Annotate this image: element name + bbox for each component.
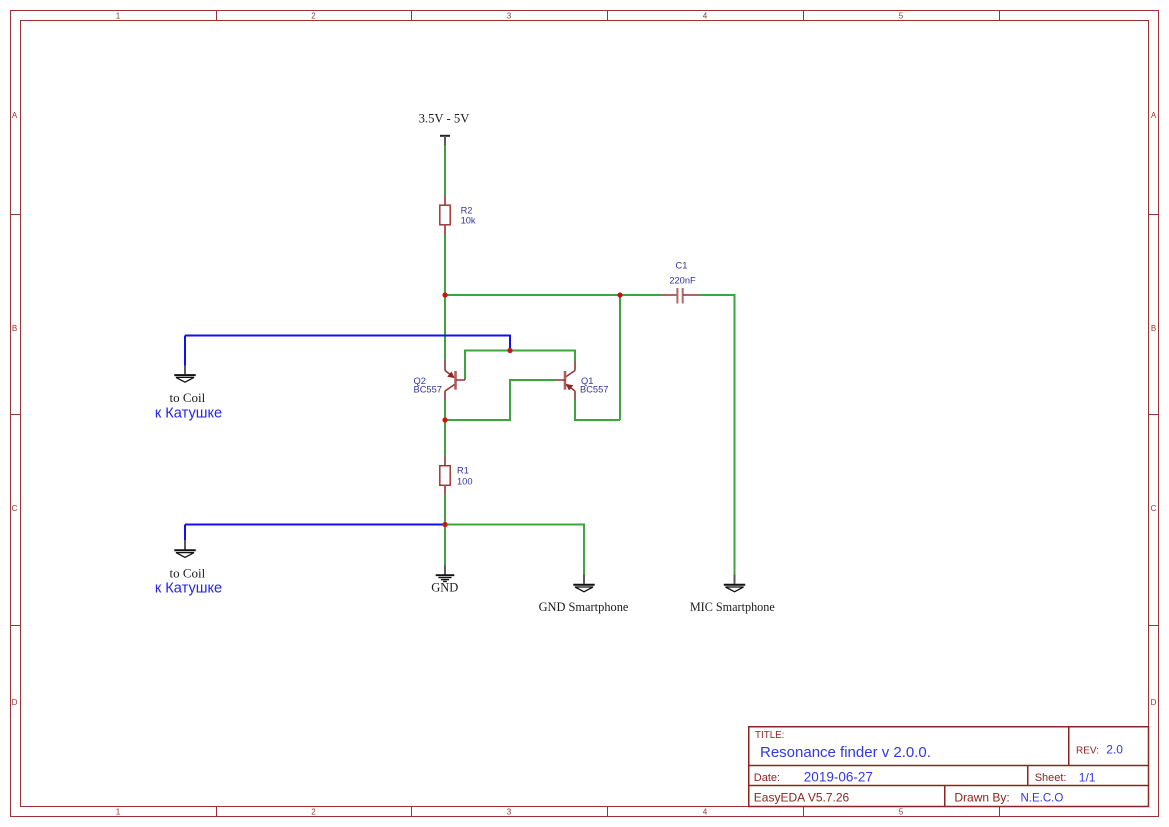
svg-text:TITLE:: TITLE:: [755, 730, 784, 741]
net port arrow to Coil lower: [174, 540, 195, 557]
net port arrow to Coil upper: [174, 366, 195, 383]
wire node x620 down: [619, 295, 621, 420]
svg-text:Sheet:: Sheet:: [1035, 772, 1067, 784]
wire C1 to MIC drop: [700, 295, 735, 575]
Q2 base bar: [454, 371, 457, 390]
wire base rail Q2base-Q1collector: [465, 351, 575, 381]
power symbol bar: [440, 135, 450, 137]
svg-text:EasyEDA V5.7.26: EasyEDA V5.7.26: [754, 790, 850, 804]
frame column numbers top: [116, 12, 904, 21]
power symbol stub: [444, 136, 446, 146]
Q1 emitter diagonal with arrow: [566, 385, 575, 392]
svg-text:100: 100: [457, 476, 473, 486]
wire power to R2: [444, 146, 446, 196]
svg-text:1: 1: [116, 12, 121, 21]
transistor Q1 (BC557): [556, 361, 608, 400]
Q1 collector pin: [574, 361, 576, 371]
svg-text:220nF: 220nF: [669, 276, 696, 286]
svg-text:2: 2: [311, 12, 316, 21]
wire R2 to node B1: [444, 235, 446, 296]
svg-text:2019-06-27: 2019-06-27: [804, 769, 873, 784]
svg-text:R1: R1: [457, 466, 469, 476]
svg-text:D: D: [1151, 698, 1157, 707]
wire ground node to GND symbol: [444, 525, 446, 566]
junction at base rail: [507, 348, 512, 353]
svg-text:Date:: Date:: [754, 772, 780, 784]
resistor R2 pin 2: [444, 225, 446, 235]
Q1 base bar: [564, 371, 567, 390]
svg-text:GND: GND: [431, 580, 458, 594]
svg-text:4: 4: [703, 808, 708, 817]
Q1 base pin: [556, 379, 565, 381]
blue stub lower coil: [184, 525, 186, 541]
svg-text:3: 3: [507, 12, 512, 21]
svg-text:B: B: [1151, 324, 1156, 333]
blue net wire to Coil lower: [185, 524, 445, 526]
resistor R2 pin 1: [444, 196, 446, 206]
svg-text:10k: 10k: [461, 216, 476, 226]
svg-text:MIC Smartphone: MIC Smartphone: [690, 600, 775, 614]
net port arrow GND Smartphone: [573, 575, 594, 592]
wire Q1 base to lower node: [445, 380, 556, 420]
svg-text:к Катушке: к Катушке: [155, 406, 222, 422]
svg-text:5: 5: [899, 12, 904, 21]
svg-text:2: 2: [311, 808, 316, 817]
svg-text:к Катушке: к Катушке: [155, 581, 222, 597]
wire R1 to ground node: [444, 495, 446, 525]
junction Q2 collector node: [442, 417, 447, 422]
frame column numbers bottom: [116, 808, 904, 817]
blue net wire to Coil upper: [185, 336, 510, 351]
svg-text:BC557: BC557: [580, 385, 608, 395]
Q1 emitter pin: [574, 391, 576, 400]
svg-text:3: 3: [507, 808, 512, 817]
wire node to R1: [444, 420, 446, 456]
svg-text:C1: C1: [676, 261, 688, 271]
svg-text:Resonance finder v 2.0.0.: Resonance finder v 2.0.0.: [760, 744, 931, 761]
svg-text:N.E.C.O: N.E.C.O: [1021, 792, 1064, 804]
svg-text:B: B: [12, 324, 17, 333]
resistor R2 body: [440, 205, 450, 225]
capacitor C1 pin 1: [661, 294, 677, 296]
capacitor C1 pin 2: [683, 294, 700, 296]
blue stub upper coil: [184, 336, 186, 366]
svg-text:4: 4: [703, 12, 708, 21]
svg-text:R2: R2: [461, 205, 473, 215]
junction at R2 bottom node: [442, 292, 447, 297]
frame row letters right: [1151, 111, 1157, 707]
svg-text:to Coil: to Coil: [170, 390, 206, 405]
svg-text:to Coil: to Coil: [170, 566, 206, 581]
junction at x620: [617, 292, 622, 297]
resistor R1 pin 1: [444, 456, 446, 466]
svg-text:A: A: [12, 111, 18, 120]
wire ground node to GND Smartphone: [445, 525, 584, 575]
transistor Q2 (BC557, mirrored): [414, 360, 466, 400]
svg-text:1: 1: [116, 808, 121, 817]
Q1 collector diagonal: [566, 371, 576, 378]
wire Q2 collector down: [444, 400, 446, 420]
svg-text:2.0: 2.0: [1106, 742, 1123, 756]
Q2 collector diagonal: [445, 385, 455, 392]
svg-text:C: C: [1151, 504, 1157, 513]
svg-text:GND Smartphone: GND Smartphone: [539, 600, 629, 614]
title block: [749, 727, 1149, 807]
frame row letters left: [12, 111, 18, 707]
Q2 base pin: [456, 379, 465, 381]
svg-text:1/1: 1/1: [1079, 770, 1096, 784]
net port arrow MIC Smartphone: [724, 575, 745, 592]
Q2 collector pin: [444, 391, 446, 400]
GND symbol: [436, 566, 455, 582]
wire supply node down to Q2 emitter: [444, 295, 446, 360]
svg-text:BC557: BC557: [414, 385, 442, 395]
svg-text:A: A: [1151, 111, 1157, 120]
svg-text:3.5V - 5V: 3.5V - 5V: [419, 112, 471, 126]
resistor R1 body: [440, 466, 450, 486]
junction ground node: [442, 522, 447, 527]
svg-text:Drawn By:: Drawn By:: [954, 790, 1009, 804]
svg-text:D: D: [12, 698, 18, 707]
svg-text:C: C: [12, 504, 18, 513]
Q2 emitter pin: [444, 360, 446, 371]
wire node to C1: [445, 294, 661, 296]
svg-text:5: 5: [899, 808, 904, 817]
Q2 emitter diagonal with arrow: [445, 371, 454, 378]
svg-text:REV:: REV:: [1076, 745, 1099, 756]
wire bottom right to Q1 emitter: [575, 400, 620, 420]
resistor R1 pin 2: [444, 486, 446, 495]
capacitor C1 plates: [676, 288, 678, 304]
